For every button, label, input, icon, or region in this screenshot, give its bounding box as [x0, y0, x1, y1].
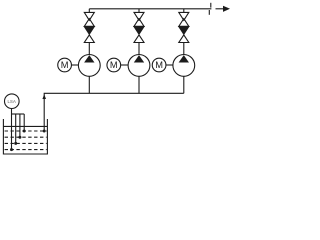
wire motor M1 to pump P1: [72, 64, 79, 66]
wire suction bus: [44, 93, 184, 131]
wire valve V2 to pump P2: [138, 43, 140, 55]
pump P1: [78, 55, 100, 77]
check valve CV3: [179, 27, 189, 43]
shutoff valve V1: [84, 12, 94, 26]
shutoff valve V3: [179, 12, 189, 26]
flow arrow up on suction pipe: [42, 94, 46, 99]
level probe 2: [15, 114, 17, 143]
pump P3: [173, 55, 195, 77]
pump P2: [128, 55, 150, 77]
line break mark: [209, 3, 211, 15]
svg-text:M: M: [61, 60, 69, 70]
check valve CV2: [134, 27, 144, 43]
check valve CV1: [84, 27, 94, 43]
wire valve V1 to bus: [88, 9, 90, 13]
probe header bar: [12, 113, 25, 115]
wire top discharge bus: [89, 8, 211, 10]
junction suction pipe end: [43, 130, 46, 133]
svg-text:M: M: [155, 60, 163, 70]
flow arrow out: [216, 6, 231, 12]
wire instrument to probe header: [11, 109, 13, 115]
wire motor M3 to pump P3: [166, 64, 173, 66]
wire pump P2 to suction bus: [138, 76, 140, 93]
motor M3: [152, 58, 166, 72]
fluid hatch row 3: [5, 142, 47, 144]
probe 3 tip: [18, 136, 21, 139]
probe 4 tip: [23, 130, 26, 133]
wire valve V3 to bus: [183, 9, 185, 13]
svg-text:LSA: LSA: [8, 99, 17, 104]
fluid hatch row 1: [5, 130, 47, 132]
wire valve V1 to pump P1: [88, 43, 90, 55]
wire motor M2 to pump P2: [121, 64, 128, 66]
wire valve V3 to pump P3: [183, 43, 185, 55]
level probe 3: [19, 114, 21, 137]
shutoff valve V2: [134, 12, 144, 26]
level probe 1: [11, 114, 13, 150]
tank T1: [3, 119, 47, 154]
probe 1 tip: [10, 148, 13, 151]
probe 2 tip: [14, 142, 17, 145]
wire valve V2 to bus: [138, 9, 140, 13]
level instrument LSA: [5, 94, 20, 109]
svg-text:M: M: [110, 60, 118, 70]
fluid hatch row 4: [5, 149, 47, 151]
motor M2: [107, 58, 121, 72]
fluid hatch row 2: [5, 136, 47, 138]
motor M1: [58, 58, 72, 72]
fluid surface line: [3, 125, 47, 127]
wire pump P1 to suction bus: [88, 76, 90, 93]
wire pump P3 to suction bus: [183, 76, 185, 93]
level probe 4: [23, 114, 25, 131]
